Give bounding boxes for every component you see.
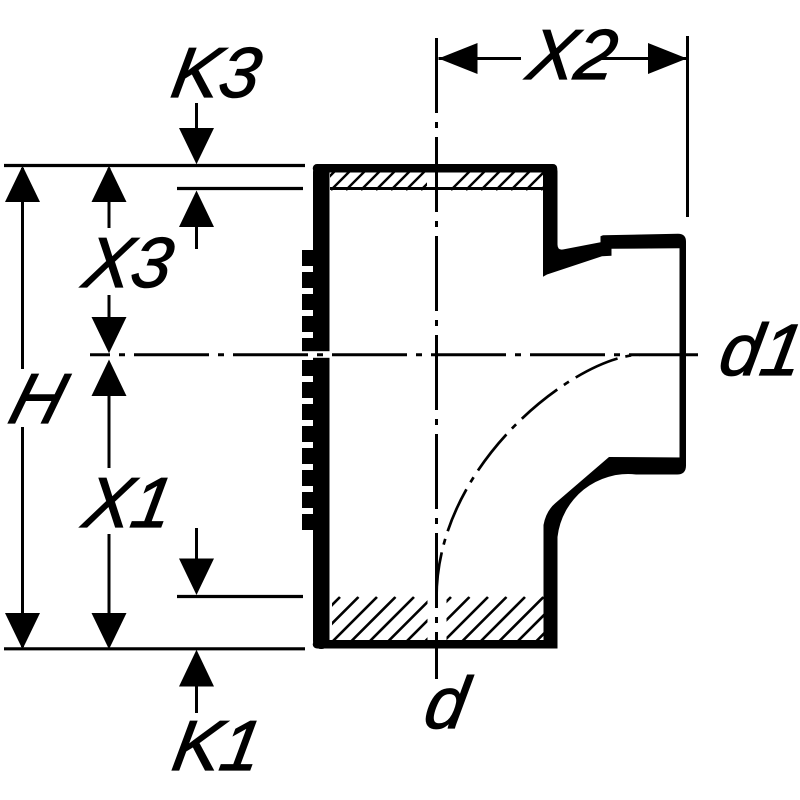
svg-text:K1: K1 [167,706,268,785]
dimension X2 line right part [597,57,687,60]
wire K1 inner reference line at y=596 [177,595,303,598]
dimension K3 stem upper [195,103,198,130]
arrow K3 lower [179,191,214,228]
body top edge [317,164,553,173]
hidden branch curve [437,355,641,598]
dimension X3 line segments [108,168,111,228]
arrow H top [5,166,40,202]
wire top reference line at y=165 [4,164,305,167]
body left wall bar [313,164,330,649]
svg-text:H: H [2,359,77,438]
wire bottom reference line at y=648 [4,647,305,650]
dimension K1 stem lower [195,685,198,713]
vertical centerline d axis [435,38,438,679]
arrow X1 bottom [92,613,127,649]
arrow K3 upper [179,128,214,164]
bottom socket hatching [296,597,581,641]
arrow K1 upper [179,559,214,596]
arrow X2 left [439,43,478,74]
svg-text:d1: d1 [714,309,800,391]
top socket inner line at y=188 [330,187,543,190]
arrow H bottom [5,613,40,649]
svg-text:X2: X2 [520,15,623,94]
dimension K3 stem lower [195,226,198,249]
white gap in left wall at centerline [300,351,332,358]
body bottom edge [317,640,553,649]
svg-text:X3: X3 [76,223,179,302]
body right upper wall, branch top wall and socket mouth bar [543,164,686,466]
arrow X3 top [92,166,127,202]
arrow X1 top [92,360,127,397]
wire K3 inner reference line at y=188 [177,187,303,190]
left wall gasket teeth [302,250,314,530]
svg-text:X1: X1 [76,463,179,542]
X2 right extension line [686,36,689,217]
dimension K1 stem upper [195,528,198,559]
svg-text:K3: K3 [166,33,267,112]
dimension H vertical line [21,168,24,369]
top socket hatching [316,171,560,190]
svg-text:d: d [419,662,476,744]
branch bottom wall, elbow and body lower right wall [544,457,687,649]
horizontal centerline d1 axis [90,353,698,356]
arrow X3 bottom [92,317,127,353]
arrow K1 lower [179,650,214,687]
arrow X2 right [648,43,687,74]
dimension X1 line segments [108,394,111,468]
dimension X2 line left part [439,57,522,60]
